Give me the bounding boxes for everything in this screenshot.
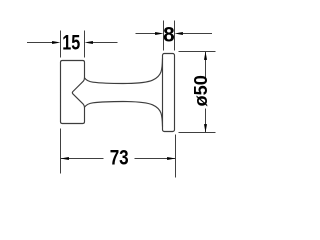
ext line bottom [179,132,216,134]
svg-text:15: 15 [62,32,80,55]
dim line left seg [61,158,104,160]
arrow left of 73 [61,157,69,160]
arrow down of ø50 [204,124,207,132]
leader right [183,33,212,35]
ext line left [60,31,62,58]
stem bottom edge [85,102,163,127]
arrow right of 8 [175,32,183,35]
leader left [27,42,53,44]
ext line right [175,135,177,178]
leader right [92,42,118,44]
dim line right seg [135,158,176,160]
wall disc (side view) [163,54,175,132]
arrow left of 8 [155,32,163,35]
arrow left of 15 [52,41,60,44]
arrow right of 15 [85,41,93,44]
dimension 15 [27,31,118,58]
dimension 73 [61,129,176,178]
arrow right of 73 [167,157,175,160]
ext line left [60,129,62,174]
svg-text:73: 73 [110,147,129,170]
leader left [136,33,156,35]
svg-text:8: 8 [163,24,175,47]
stem top edge [85,59,163,84]
ext line left [163,21,165,51]
ext line right [84,31,86,58]
ext line top [179,51,216,53]
dim line lower seg [205,109,207,133]
hook front plate with chevron notch [61,61,85,124]
arrow up of ø50 [204,52,207,60]
ext line right [174,21,176,51]
svg-text:ø50: ø50 [191,75,211,106]
dimension ø50 [179,52,216,133]
dimension 8 [136,21,213,51]
dim line upper seg [205,52,207,78]
